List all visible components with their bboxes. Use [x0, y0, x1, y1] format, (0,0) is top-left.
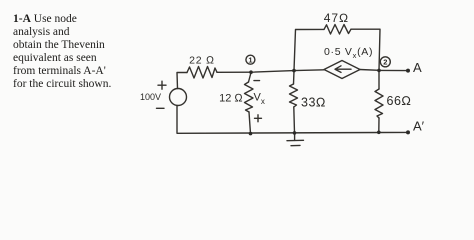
svg-text:47Ω: 47Ω — [324, 11, 350, 25]
wire 33 junction to diamond — [294, 69, 324, 72]
66ohm branch bottom wire — [378, 118, 380, 132]
66ohm branch top wire — [378, 71, 380, 89]
wire 22ohm to node 1 — [217, 71, 251, 73]
svg-text:2: 2 — [383, 58, 387, 67]
svg-text:100V: 100V — [140, 92, 161, 102]
resistor R 12ohm vertical zigzag — [245, 82, 254, 112]
svg-text:12 Ω: 12 Ω — [219, 93, 243, 105]
33ohm branch bottom wire — [293, 107, 296, 133]
ground bar long — [287, 139, 304, 141]
terminal dot A — [406, 69, 410, 73]
resistor R 33ohm vertical zigzag — [290, 84, 298, 107]
plus sign source — [158, 81, 166, 89]
arrow inside diamond — [336, 68, 351, 70]
33ohm branch top wire — [293, 71, 296, 84]
junction dot ground — [293, 131, 297, 135]
wire diamond to node2 junction — [360, 69, 379, 72]
12ohm branch top wire — [249, 73, 252, 83]
minus sign source — [157, 107, 165, 109]
wire left-top vertical from source to top rail — [177, 73, 187, 89]
12ohm branch bottom wire — [249, 112, 251, 134]
junction dot 66 bottom — [377, 131, 381, 135]
47ohm loop right vertical wire — [351, 29, 380, 70]
wire node1 to 33ohm junction — [251, 71, 294, 73]
svg-text:22 Ω: 22 Ω — [189, 55, 215, 67]
resistor R 22ohm zigzag — [187, 67, 217, 79]
ground stem — [294, 133, 296, 140]
ground bar short — [291, 144, 300, 146]
terminal dot A' — [406, 130, 410, 134]
junction dot node1 — [249, 70, 253, 74]
resistor R 47ohm zigzag — [324, 25, 351, 35]
svg-text:A: A — [413, 60, 422, 75]
node 2 circle — [380, 57, 390, 67]
svg-text:33Ω: 33Ω — [301, 96, 326, 110]
node 1 circle — [246, 55, 255, 64]
voltage source V1 100V circle — [170, 89, 187, 106]
plus sign Vx — [255, 115, 262, 122]
svg-text:A′: A′ — [413, 119, 425, 134]
dependent source U1 diamond — [324, 61, 360, 79]
junction dot 33 top — [292, 69, 296, 73]
bottom rail wire — [177, 106, 407, 134]
junction dot node2 — [377, 69, 381, 73]
junction dot 12 bottom — [249, 132, 253, 136]
svg-text:0·5 Vx(A): 0·5 Vx(A) — [324, 46, 373, 60]
svg-text:66Ω: 66Ω — [387, 94, 412, 108]
resistor R 66ohm vertical zigzag — [375, 89, 383, 118]
problem statement text — [13, 13, 128, 92]
47ohm loop left vertical wire — [294, 29, 324, 70]
svg-text:1: 1 — [248, 56, 252, 65]
svg-text:Vx: Vx — [254, 92, 265, 107]
minus sign Vx — [254, 80, 260, 82]
wire node2 to terminal A — [379, 69, 407, 71]
